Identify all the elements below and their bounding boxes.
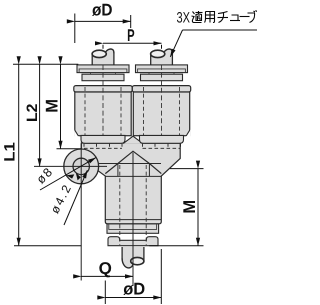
svg-text:L2: L2 — [24, 104, 41, 123]
svg-text:L1: L1 — [1, 142, 18, 162]
svg-text:øD: øD — [123, 280, 145, 299]
svg-text:ø8: ø8 — [34, 164, 56, 186]
svg-text:M: M — [180, 200, 199, 214]
svg-text:3X: 3X — [177, 9, 191, 26]
svg-text:Q: Q — [99, 259, 112, 278]
svg-text:øD: øD — [92, 0, 113, 19]
svg-text:M: M — [43, 99, 62, 113]
svg-text:P: P — [127, 26, 135, 45]
